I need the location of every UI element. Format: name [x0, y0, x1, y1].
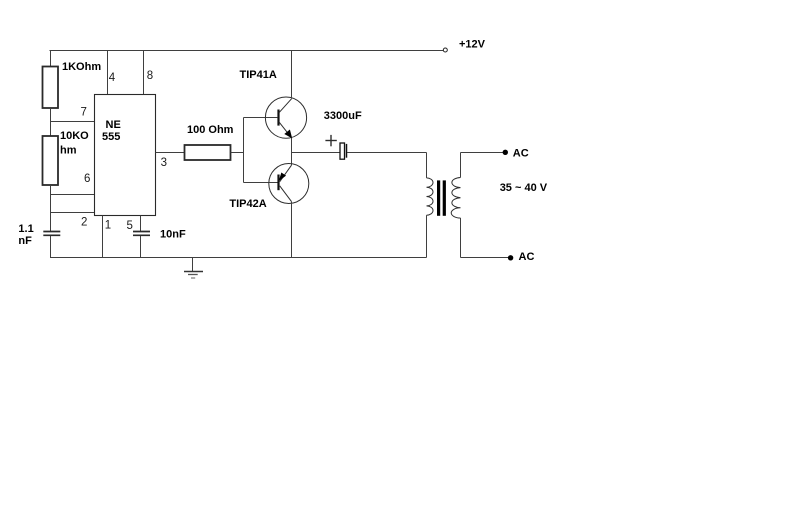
svg-text:AC: AC: [513, 147, 529, 159]
svg-text:TIP42A: TIP42A: [229, 198, 266, 210]
wire emitter junction vertical: [291, 138, 293, 165]
node +12V terminal circle: [443, 48, 447, 52]
wire Q1 base: [244, 117, 278, 119]
resistor R3 100 Ohm: [185, 145, 231, 160]
wire pin2: [51, 212, 95, 214]
ground symbol: [184, 258, 203, 279]
wire R1 top stub: [50, 51, 52, 67]
wire transformer primary bottom vertical: [426, 215, 428, 257]
op-amp U1 NE555 box: [95, 95, 156, 216]
label U1 NE 555: [102, 119, 121, 143]
wire capacitor to transformer: [347, 152, 427, 154]
wire C2 bottom vertical: [140, 236, 142, 258]
wire secondary bottom to AC terminal: [461, 257, 509, 259]
svg-text:TIP41A: TIP41A: [240, 69, 277, 81]
svg-text:4: 4: [109, 72, 116, 84]
svg-text:10KO: 10KO: [60, 130, 89, 142]
svg-text:1.1: 1.1: [18, 223, 33, 235]
svg-text:10nF: 10nF: [160, 229, 186, 241]
svg-text:hm: hm: [60, 145, 77, 157]
svg-text:3: 3: [161, 157, 167, 169]
inductor T1 secondary winding: [451, 178, 460, 219]
wire pin7: [51, 121, 95, 123]
wire Q2 base: [244, 182, 278, 184]
svg-text:6: 6: [84, 173, 90, 185]
svg-text:AC: AC: [519, 251, 535, 263]
wire C1 bottom vertical: [50, 236, 52, 258]
svg-text:7: 7: [81, 107, 87, 119]
wire pin6: [51, 194, 95, 196]
wire secondary bottom vertical: [460, 218, 462, 258]
transformer T1 core bars: [437, 180, 446, 215]
wire R3 to base junction: [231, 152, 244, 154]
svg-text:2: 2: [81, 217, 87, 229]
label R2 value 10KOhm: [60, 130, 89, 157]
svg-text:1: 1: [105, 220, 111, 232]
inductor T1 primary winding: [427, 178, 434, 215]
wire transformer primary top vertical: [426, 153, 428, 178]
node AC top terminal dot: [503, 150, 508, 155]
wire R1-R2 junction vertical: [50, 108, 52, 136]
resistor R1: [43, 67, 59, 109]
wire Q2 collector vertical: [291, 202, 293, 258]
transistor Q1 TIP41A: [265, 97, 306, 138]
wire +12V top rail: [50, 50, 444, 52]
wire secondary top to AC terminal: [461, 152, 504, 154]
svg-text:8: 8: [147, 70, 153, 82]
transistor Q2 TIP42A: [269, 164, 309, 204]
svg-text:3300uF: 3300uF: [324, 110, 362, 122]
resistor R2: [43, 136, 59, 185]
wire pin3 output: [156, 152, 185, 154]
capacitor C3 3300uF: [340, 143, 347, 159]
label C3 polarity plus: [325, 135, 336, 146]
node AC bottom terminal dot: [508, 255, 513, 260]
svg-text:100 Ohm: 100 Ohm: [187, 124, 234, 136]
label C1 value 1.1nF: [18, 223, 33, 247]
wire pin8: [143, 51, 145, 95]
wire base junction vertical: [243, 118, 245, 183]
wire ground bottom rail: [50, 257, 427, 259]
svg-text:NE: NE: [106, 119, 121, 131]
svg-text:+12V: +12V: [459, 39, 486, 51]
capacitor C1 1.1nF: [43, 232, 60, 236]
svg-text:1KOhm: 1KOhm: [62, 61, 101, 73]
wire secondary top vertical: [460, 153, 462, 178]
wire pin4: [107, 51, 109, 95]
svg-text:nF: nF: [18, 235, 32, 247]
wire pin1: [102, 216, 104, 258]
wire pin5: [140, 216, 142, 232]
capacitor C2 10nF: [133, 232, 150, 236]
svg-text:35 ~ 40 V: 35 ~ 40 V: [500, 182, 548, 194]
svg-text:5: 5: [127, 220, 133, 232]
svg-text:555: 555: [102, 131, 120, 143]
wire Q1 collector vertical: [291, 51, 293, 99]
wire R2 bottom vertical to C1: [50, 185, 52, 231]
wire emitter junction to capacitor: [292, 152, 341, 154]
